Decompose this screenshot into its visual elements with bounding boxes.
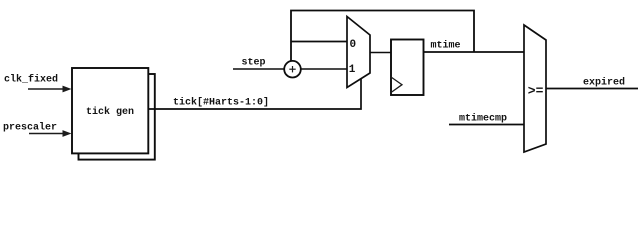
wire mux output to register D input [370, 52, 391, 54]
wire adder output to mux input 1 [301, 68, 347, 70]
wire prescaler input arrow [29, 130, 72, 137]
wire mtime feedback loop (top) [291, 11, 474, 62]
adder U2 (+) [284, 61, 301, 78]
wire mtime from register Q to comparator [424, 51, 525, 53]
wire feedback branch to mux input 0 [291, 41, 347, 43]
svg-text:step: step [242, 58, 266, 69]
block tick gen (stacked instances) [72, 68, 155, 160]
wire clk_fixed input arrow [28, 86, 72, 93]
svg-text:prescaler: prescaler [3, 122, 57, 134]
svg-text:tick gen: tick gen [86, 106, 134, 118]
wire step input [233, 68, 284, 70]
svg-text:mtime: mtime [431, 40, 461, 52]
svg-text:expired: expired [583, 77, 625, 89]
svg-text:0: 0 [350, 39, 357, 51]
register U4 mtime (D flip-flop) [391, 40, 424, 96]
comparator U5 (&gt;=) body [524, 25, 546, 152]
wire mtimecmp input [449, 124, 524, 126]
svg-text:1: 1 [349, 64, 356, 76]
svg-text:>=: >= [528, 84, 544, 99]
wire tick[#Harts-1:0] from tick gen to mux select [148, 79, 361, 109]
svg-text:mtimecmp: mtimecmp [459, 113, 507, 125]
svg-text:clk_fixed: clk_fixed [4, 74, 58, 86]
wire expired output [546, 88, 638, 90]
svg-text:tick[#Harts-1:0]: tick[#Harts-1:0] [173, 97, 269, 109]
mux U3 body [347, 17, 370, 88]
